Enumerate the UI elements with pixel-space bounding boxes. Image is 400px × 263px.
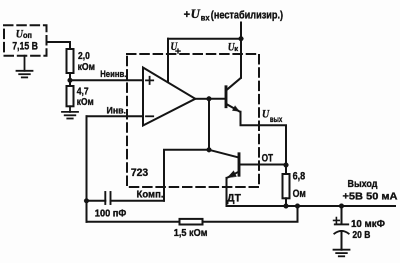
wire comp pin — [164, 150, 209, 201]
svg-text:Комп.: Комп. — [137, 189, 164, 200]
op-amp U1 — [143, 68, 195, 126]
svg-text:ОТ: ОТ — [262, 152, 274, 164]
wire C2 to ground — [341, 231, 343, 250]
pin Uк wire — [240, 39, 242, 78]
transistor Q2 base bar — [238, 154, 241, 175]
svg-text:20 В: 20 В — [352, 229, 370, 241]
svg-text:кОм: кОм — [77, 96, 94, 108]
svg-text:1,5 кОм: 1,5 кОм — [174, 227, 208, 239]
resistor R2 — [67, 86, 74, 106]
wire Uоп to R1 — [47, 42, 71, 49]
node op-amp output — [207, 96, 212, 101]
capacitor C2 lead — [341, 206, 343, 224]
ground (under Uоп box) — [17, 56, 33, 78]
node feedback tap — [295, 204, 300, 209]
transistor Q2 emitter — [228, 172, 239, 178]
svg-text:кОм: кОм — [78, 61, 96, 73]
node comp junction — [207, 147, 212, 152]
wire R3 bottom — [285, 198, 287, 206]
op-amp minus input mark — [146, 115, 153, 117]
wire feedback bottom left — [87, 221, 180, 223]
node A (divider tap) — [68, 78, 73, 83]
wire +Uвх down — [240, 23, 242, 39]
svg-text:U: U — [262, 108, 270, 120]
ground (output cap) — [334, 250, 350, 257]
transistor Q1 emitter — [227, 104, 240, 112]
wire inverting input — [87, 115, 144, 117]
node R3 output — [284, 204, 289, 209]
capacitor C2 bottom plate (curved) — [334, 231, 348, 234]
svg-text:к: к — [234, 44, 238, 53]
wire comp cap right lead — [111, 200, 165, 202]
node supply junction — [239, 36, 244, 41]
wire comp cap left lead — [87, 200, 106, 202]
resistor R4 1,5 кОм — [180, 219, 203, 225]
transistor Q1 collector — [227, 78, 241, 90]
svg-text:(нестабилизир.): (нестабилизир.) — [211, 9, 284, 21]
capacitor C1 100 пФ — [105, 192, 110, 204]
wire inverting input down (feedback) — [86, 116, 88, 222]
IC 723 dashed box — [127, 54, 259, 187]
wire top rail U+ to Uк — [168, 38, 241, 40]
svg-text:+: + — [184, 9, 190, 21]
svg-text:ДТ: ДТ — [227, 192, 241, 204]
svg-text:Ом: Ом — [293, 188, 306, 200]
svg-text:723: 723 — [131, 167, 148, 179]
svg-text:Выход: Выход — [348, 178, 378, 190]
svg-text:2,0: 2,0 — [78, 50, 90, 62]
svg-text:+5В 50 мА: +5В 50 мА — [343, 191, 398, 203]
transistor Q2 base wire — [240, 164, 286, 166]
wire non-inverting input — [70, 79, 143, 81]
pin U+ wire — [167, 39, 169, 82]
wire Q1 emitter to Uвых corner — [241, 112, 287, 165]
wire output rail — [227, 205, 396, 207]
wire op-amp output down — [208, 99, 210, 150]
resistor R1 — [67, 49, 74, 73]
transistor Q2 emitter arrow — [227, 171, 236, 178]
node Q2 base / R3 top — [284, 163, 289, 168]
transistor Q1 base bar — [225, 87, 228, 107]
svg-text:7,15 В: 7,15 В — [12, 41, 38, 53]
wire to R3 — [285, 165, 287, 174]
wire op-amp output — [195, 98, 209, 100]
reference source Uоп box — [4, 25, 47, 55]
svg-text:вых: вых — [270, 114, 283, 124]
node feedback / cap — [84, 198, 89, 203]
wire R1 to R2 — [69, 73, 71, 86]
svg-text:Инв.: Инв. — [107, 105, 127, 116]
resistor R3 6,8 Ом — [283, 174, 290, 198]
capacitor C2 top plate — [335, 223, 348, 225]
svg-text:6,8: 6,8 — [293, 171, 306, 183]
capacitor C2 plus mark — [334, 218, 340, 224]
transistor Q2 (ДТ) collector — [209, 150, 238, 158]
svg-text:Неинв.: Неинв. — [100, 69, 126, 80]
wire feedback bottom right — [203, 206, 298, 222]
svg-text:оп: оп — [23, 30, 32, 40]
op-amp plus input mark — [146, 77, 153, 84]
transistor Q1 (ОТ) base wire — [209, 98, 225, 100]
ground (under R2) — [62, 106, 78, 118]
svg-text:U: U — [191, 7, 201, 21]
node cap tap — [339, 204, 344, 209]
svg-text:100 пФ: 100 пФ — [95, 207, 127, 219]
svg-text:вх: вх — [201, 13, 210, 23]
wire Q2 emitter down — [226, 178, 228, 206]
transistor Q1 emitter arrow — [232, 106, 239, 112]
